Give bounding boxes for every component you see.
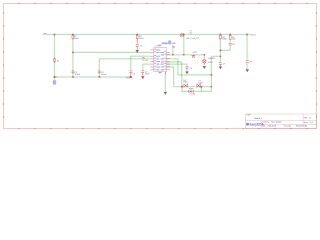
svg-text:1/1: 1/1 — [310, 122, 312, 124]
wire xtal top branch — [182, 86, 201, 88]
ground GND3 (IC bottom pin) — [164, 92, 167, 94]
component on V1 — [54, 58, 56, 63]
junction top wire / R5 branch — [229, 33, 231, 35]
ground GND5 (under LED1) — [203, 66, 206, 68]
cap x130.8 — [129, 71, 132, 77]
wire nodeR stub — [200, 87, 202, 92]
wire corner x130.8 — [131, 56, 151, 70]
ground GND4 (under C5) — [186, 72, 189, 74]
ground GND7 (under C9) — [246, 70, 249, 72]
junction 3v3 run / swd stub — [172, 54, 174, 56]
red micro near swd — [172, 46, 175, 47]
cap C3 on V3 — [98, 71, 101, 73]
+3V3 flag glyph — [192, 55, 196, 57]
left pins — [150, 50, 170, 74]
resistor x220 top — [220, 35, 222, 39]
ground GND6 (under C7) — [219, 67, 222, 69]
wire mid h1 — [73, 51, 150, 53]
svg-text:TITLE:: TITLE: — [246, 115, 251, 117]
sheet frame — [4, 4, 317, 129]
junction node B (xtal right) — [200, 86, 202, 88]
svg-text:REV:: REV: — [304, 118, 308, 120]
svg-text:SWD: SWD — [171, 43, 176, 45]
junction 3v3 run / fuse drop — [183, 54, 185, 56]
fuse F1 — [180, 33, 184, 37]
svg-text:LED1: LED1 — [208, 62, 214, 64]
junction gnd rail / C3 — [98, 76, 100, 78]
svg-text:10kΩ: 10kΩ — [222, 39, 227, 41]
svg-text:10kΩ: 10kΩ — [139, 38, 144, 40]
junction dots — [53, 33, 248, 87]
wire mid h2 — [99, 58, 150, 60]
wire ic bottom gnd — [164, 72, 166, 92]
svg-text:2021-05-28: 2021-05-28 — [268, 126, 276, 128]
cap x247 — [246, 61, 249, 63]
blue port bubble below rail — [53, 40, 172, 85]
junction riser / node B wire — [211, 86, 213, 88]
svg-text:Raymnd Reddy: Raymnd Reddy — [296, 126, 307, 128]
resistor x230 top — [229, 36, 231, 40]
crystal X1 bottom branch — [188, 90, 193, 92]
wire branch y50.4 — [220, 45, 230, 50]
svg-text:X1 8M: X1 8M — [189, 94, 195, 96]
bottom pin — [164, 72, 166, 75]
wire nodeR to riser — [201, 86, 211, 88]
wire fuse drop — [183, 35, 185, 55]
svg-text:22pF: 22pF — [145, 73, 150, 75]
svg-text:1kΩ: 1kΩ — [232, 39, 236, 41]
junction top wire / fuse drop — [183, 33, 185, 35]
wire far right drop — [246, 35, 248, 60]
cap x137 — [136, 45, 139, 50]
svg-text:100nF: 100nF — [101, 74, 107, 76]
ground GND2 (under C1 crystal cap) — [141, 77, 144, 79]
cap x230 — [229, 43, 232, 45]
svg-text:RESET: RESET — [209, 58, 216, 60]
svg-text:Your Company: Your Company — [271, 121, 282, 123]
junction chain x220 / rst wire — [220, 55, 222, 57]
svg-text:1.0: 1.0 — [309, 118, 311, 120]
junction chain x220 / branch — [219, 49, 221, 51]
red labels — [142, 31, 196, 96]
wire pin61 to nodeL — [166, 62, 181, 87]
wire port stub below rail — [54, 77, 56, 80]
svg-text:100nF: 100nF — [75, 74, 81, 76]
ground GND1 (under C6 stack) — [136, 50, 139, 52]
svg-text:8MHz: 8MHz — [189, 89, 194, 91]
wire vertical V1 — [54, 35, 56, 78]
svg-text:Drawn By:: Drawn By: — [284, 126, 292, 128]
title block — [245, 114, 316, 128]
wire chain x220 — [219, 39, 221, 63]
svg-text:Sheet_1: Sheet_1 — [254, 117, 263, 120]
junction gnd rail / C4 — [130, 76, 132, 78]
wire xtal bottom branch — [182, 87, 211, 92]
cap x187 — [186, 66, 189, 71]
crystal top branch X elements — [184, 84, 200, 88]
svg-text:VSS: VSS — [126, 77, 131, 79]
wire y75 run — [178, 74, 212, 76]
grounds — [136, 50, 249, 94]
junction gnd rail / C2 — [72, 76, 74, 78]
junction gnd rail corner — [54, 76, 56, 78]
junction top wire / R4 branch — [219, 33, 221, 35]
junction top wire / R3 branch — [136, 33, 138, 35]
wire xtal left feed — [166, 67, 182, 87]
svg-text:10kΩ: 10kΩ — [74, 38, 79, 40]
junction mid h1 / V2 — [72, 51, 74, 53]
junction 3v3 run / led stub — [203, 54, 205, 56]
wire 3v3 run — [166, 54, 204, 56]
EasyEDA logo — [246, 123, 264, 127]
wire chain x230 — [229, 40, 231, 43]
pin names blue — [156, 49, 164, 70]
frame tick marks — [3, 3, 317, 129]
cap x220 — [219, 63, 222, 67]
wire rst corner — [211, 56, 220, 91]
wire vertical V3 — [98, 59, 100, 77]
svg-text:SCLK: SCLK — [251, 34, 257, 36]
svg-text:EasyEDA: EasyEDA — [250, 123, 265, 127]
svg-text:VIN: VIN — [43, 33, 47, 36]
junction top wire / R2 branch — [72, 33, 74, 35]
ic value blue text — [162, 42, 168, 44]
svg-text:1MΩ: 1MΩ — [183, 82, 188, 84]
junction top wire / R1 branch — [53, 33, 55, 35]
junction node A (xtal left) — [181, 86, 183, 88]
crystal cap left of IC — [141, 71, 144, 76]
right pins — [166, 51, 170, 53]
wire gnd rail — [55, 76, 131, 78]
svg-text:SW_Push_1P: SW_Push_1P — [186, 38, 199, 40]
wire swd stub — [172, 45, 174, 55]
LED D1 — [203, 60, 206, 65]
wire top rail — [47, 34, 250, 36]
resistor R2 on V2 top — [72, 35, 74, 40]
wire led stub — [203, 55, 205, 60]
resistor R3 x137 — [136, 35, 138, 43]
rail end red mark — [130, 76, 133, 78]
wire pin58 feeder — [166, 59, 178, 75]
pin numbers red — [154, 49, 166, 73]
wire cap63 — [166, 64, 187, 66]
svg-text:C4 22p: C4 22p — [142, 60, 149, 62]
junction top wire / C9 branch — [246, 33, 248, 35]
svg-text:20pF: 20pF — [198, 82, 203, 84]
junction riser / y75 run — [210, 74, 212, 76]
wire crystal cap left — [143, 64, 151, 70]
cap C2 on V2 — [71, 71, 74, 73]
wire vertical V2 — [72, 40, 74, 77]
